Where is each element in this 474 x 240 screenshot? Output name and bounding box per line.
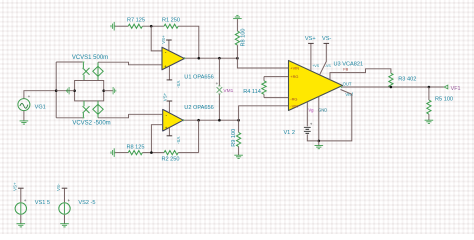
wire VCVS2 out to U2 top input — [98, 114, 129, 118]
svg-text:+: + — [165, 126, 168, 131]
op-amp U2 OPA656 — [163, 105, 214, 131]
ground (below VCA821) — [315, 141, 324, 149]
svg-text:R4 114: R4 114 — [243, 89, 261, 95]
svg-text:-RG: -RG — [290, 97, 297, 102]
resistor R8 100 — [235, 31, 239, 45]
wire VG1 bottom — [23, 111, 25, 121]
generator VG1 — [18, 94, 46, 111]
ground (mid left, rotated) — [66, 87, 69, 94]
wire -VS supply stub — [320, 43, 327, 74]
wire left rail — [55, 62, 57, 118]
amplifier U3 VCA821 — [289, 61, 364, 113]
wire Vref loop — [319, 90, 352, 141]
node B junction (R9) — [237, 119, 240, 122]
wire VM1 top lead — [218, 58, 220, 86]
svg-text:VS+: VS+ — [12, 182, 17, 191]
wire R8 bottom lead — [236, 45, 238, 58]
ground (below VG1) — [20, 120, 29, 124]
node B junction (VM1) — [218, 119, 221, 122]
svg-text:VS1 5: VS1 5 — [35, 200, 50, 206]
wire node F1 down to U1 inverting input — [151, 26, 162, 51]
node B junction (feedback) — [197, 119, 200, 122]
svg-text:VF1: VF1 — [451, 86, 461, 92]
ground (left of R7) — [111, 22, 115, 31]
svg-text:+: + — [164, 64, 167, 69]
svg-text:VS+: VS+ — [162, 92, 167, 101]
voltmeter VM1 — [217, 87, 223, 93]
svg-text:VS-: VS- — [322, 36, 331, 42]
wire V1 bottom lead — [307, 134, 319, 141]
ground (below VS2) — [60, 223, 69, 227]
svg-text:+: + — [24, 198, 27, 203]
battery V1 2 — [304, 127, 311, 133]
wire U2 bottom input from feedback — [151, 125, 162, 153]
resistor R7 125 — [128, 24, 142, 28]
svg-text:V1 2: V1 2 — [283, 130, 295, 136]
node A junction (R8) — [236, 57, 239, 60]
wire R9 top lead — [238, 120, 240, 132]
resistor R9 100 — [237, 132, 241, 146]
svg-text:Vg: Vg — [308, 107, 314, 112]
svg-text:R8 125: R8 125 — [126, 144, 144, 150]
svg-text:R5 100: R5 100 — [435, 97, 453, 103]
wire rail to X1 input — [56, 61, 83, 63]
svg-text:R3 402: R3 402 — [398, 76, 416, 82]
svg-text:-VIN: -VIN — [290, 103, 298, 108]
jumper VS- below U2 — [167, 128, 181, 145]
wire common rectangle — [75, 81, 104, 101]
wire Vg pin stub — [306, 102, 308, 127]
resistor R8 125 — [128, 151, 142, 155]
terminal ticks — [20, 25, 342, 214]
svg-text:R2 250: R2 250 — [161, 157, 179, 163]
VCVS1 output diamond — [93, 62, 103, 80]
wire +VS supply stub — [310, 43, 312, 71]
svg-text:+: + — [216, 81, 219, 86]
wire U1 output row — [184, 57, 237, 59]
wire R2 right to node B — [178, 152, 198, 154]
wire FB pin to R3 — [330, 69, 391, 80]
jumper VS+ above U1 — [161, 35, 172, 51]
svg-text:U2 OPA656: U2 OPA656 — [184, 105, 213, 111]
svg-text:VS-: VS- — [56, 183, 61, 191]
op-amp U1 OPA656 — [162, 47, 214, 80]
wire VM1 bottom lead — [218, 94, 220, 120]
jumper VS- below U1 — [167, 67, 181, 89]
wire R1 right to feedback corner — [178, 26, 199, 58]
svg-text:GND: GND — [318, 107, 327, 112]
wire R8 top lead — [236, 19, 238, 31]
node F1 junction — [150, 25, 153, 28]
node OUT junction (R3) — [390, 86, 393, 89]
probe VF1 — [444, 85, 448, 89]
VCVS2 input port X — [83, 101, 90, 118]
svg-text:VS-: VS- — [176, 81, 181, 89]
svg-text:+RG: +RG — [290, 74, 298, 79]
svg-text:VS-: VS- — [176, 137, 181, 145]
node gnd junction — [318, 140, 321, 143]
svg-text:-VS: -VS — [325, 64, 332, 68]
node OUT junction (R5) — [428, 86, 431, 89]
wire feedback B down — [198, 120, 200, 152]
wire node A to VCA +VIN pin — [237, 58, 288, 68]
ground (below R5) — [425, 120, 434, 124]
svg-text:+VIN: +VIN — [290, 66, 299, 71]
wire R3 bottom lead — [390, 86, 392, 88]
svg-text:OUT: OUT — [343, 82, 352, 87]
svg-text:+: + — [28, 94, 31, 99]
wire VG1 top — [24, 91, 56, 99]
source VS2 -5 — [56, 183, 96, 223]
resistor R5 100 — [427, 87, 453, 120]
jumper VS+ above U2 — [162, 92, 172, 113]
wire R9 bottom lead — [238, 147, 240, 155]
svg-text:VS+: VS+ — [161, 35, 166, 44]
node A junction (feedback) — [198, 57, 201, 60]
wire U2 top input — [129, 113, 163, 115]
svg-text:VM1: VM1 — [223, 88, 233, 94]
node rail junction — [55, 89, 58, 92]
svg-text:+VS: +VS — [312, 64, 319, 68]
wire rect right stub — [104, 90, 113, 92]
node rect right junction — [102, 89, 105, 92]
svg-text:+: + — [310, 121, 313, 126]
ground (below VS1) — [17, 223, 26, 227]
svg-text:R1 250: R1 250 — [162, 18, 180, 24]
node G junction — [150, 151, 153, 154]
wire R8' left lead — [115, 152, 128, 154]
VCVS1 input port X — [83, 62, 90, 81]
wire R7 left lead — [115, 25, 128, 27]
wire R8' to node G — [142, 152, 164, 154]
svg-text:VS+: VS+ — [305, 36, 316, 42]
node A junction (VM1) — [218, 57, 221, 60]
wire U2 output row — [183, 119, 238, 121]
wire node B to VCA -VIN pin — [239, 106, 289, 120]
wire GND pin stub — [318, 97, 320, 141]
resistor R1 250 — [164, 24, 178, 28]
wire R4 bottom to -RG pin — [264, 97, 289, 99]
VCVS2 output diamond — [93, 101, 103, 118]
ground (left of R8 125) — [111, 148, 115, 157]
svg-text:VS2 -5: VS2 -5 — [78, 200, 95, 206]
svg-text:VG1: VG1 — [35, 104, 46, 110]
ground (below R9) — [234, 155, 243, 159]
node rect left junction — [73, 89, 76, 92]
ground (top of R8) — [233, 15, 242, 19]
svg-text:+: + — [68, 198, 71, 203]
resistor R3 402 — [389, 73, 393, 87]
wire VCVS1 out to U1 +in — [98, 62, 162, 65]
svg-text:R9 100: R9 100 — [231, 129, 237, 147]
svg-text:R7 125: R7 125 — [127, 18, 145, 24]
wire R4 top to +RG pin — [264, 76, 289, 78]
wire R7 to node F1 — [142, 25, 164, 27]
svg-text:VCVS1 500m: VCVS1 500m — [72, 55, 108, 61]
resistor R4 114 — [243, 77, 266, 98]
wire rail to X2 input — [56, 117, 83, 119]
source VS1 5 — [12, 182, 50, 223]
svg-text:R8 100: R8 100 — [241, 28, 247, 46]
resistor R2 250 — [164, 151, 178, 155]
svg-text:VCVS2 -500m: VCVS2 -500m — [72, 121, 110, 127]
wire OUT row — [341, 86, 444, 88]
ground (mid right, rotated) — [113, 87, 116, 94]
svg-text:U3 VCA821: U3 VCA821 — [334, 61, 364, 67]
wire rail to rect left — [56, 90, 74, 92]
svg-text:U1 OPA656: U1 OPA656 — [184, 74, 213, 80]
